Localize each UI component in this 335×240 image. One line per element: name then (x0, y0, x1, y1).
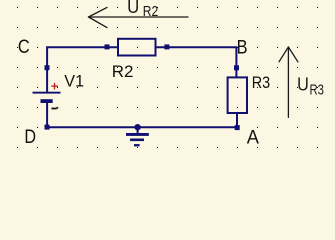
pin square R3 pin1 (234, 65, 239, 70)
label R2 (112, 62, 134, 81)
svg-text:U: U (297, 74, 309, 94)
pin square R2 pin1 (105, 44, 110, 49)
svg-text:R3: R3 (252, 73, 270, 92)
arrow U_R2 (89, 7, 189, 27)
node A (247, 127, 259, 149)
arrow U_R3 (279, 47, 298, 117)
svg-text:V1: V1 (64, 72, 84, 91)
label V1 (64, 72, 84, 91)
node C (18, 36, 30, 58)
ground (126, 124, 149, 146)
battery plus sign (51, 83, 58, 90)
battery V1 bottom plate (41, 99, 53, 103)
svg-text:C: C (18, 36, 30, 58)
wire top R2-B and right B-R3 (156, 47, 237, 77)
label U_R3 (297, 74, 324, 98)
svg-text:R3: R3 (310, 81, 325, 98)
wire left C-V1 and top C-R2 (47, 47, 118, 92)
svg-text:R2: R2 (112, 62, 134, 81)
pin square R3 pin2 (235, 125, 240, 130)
battery V1 (33, 92, 61, 103)
label R3 (252, 73, 270, 92)
resistor R2 (118, 39, 156, 56)
svg-text:R2: R2 (143, 3, 159, 20)
pin square V1 pin1 (45, 65, 50, 70)
battery minus sign (51, 107, 58, 110)
resistor R3 (228, 77, 247, 113)
label U_R2 (127, 0, 158, 20)
wire bottom V1-D-A-R3 (47, 103, 237, 127)
svg-text:A: A (247, 127, 259, 149)
node B (237, 37, 248, 59)
pin square R2 pin2 (164, 44, 169, 49)
pin square V1 pin2 (45, 125, 50, 130)
node D (24, 126, 36, 148)
sheet background (0, 0, 335, 161)
svg-text:U: U (127, 0, 139, 17)
svg-text:D: D (24, 126, 36, 148)
battery V1 top plate (33, 92, 61, 94)
svg-text:B: B (237, 37, 248, 59)
